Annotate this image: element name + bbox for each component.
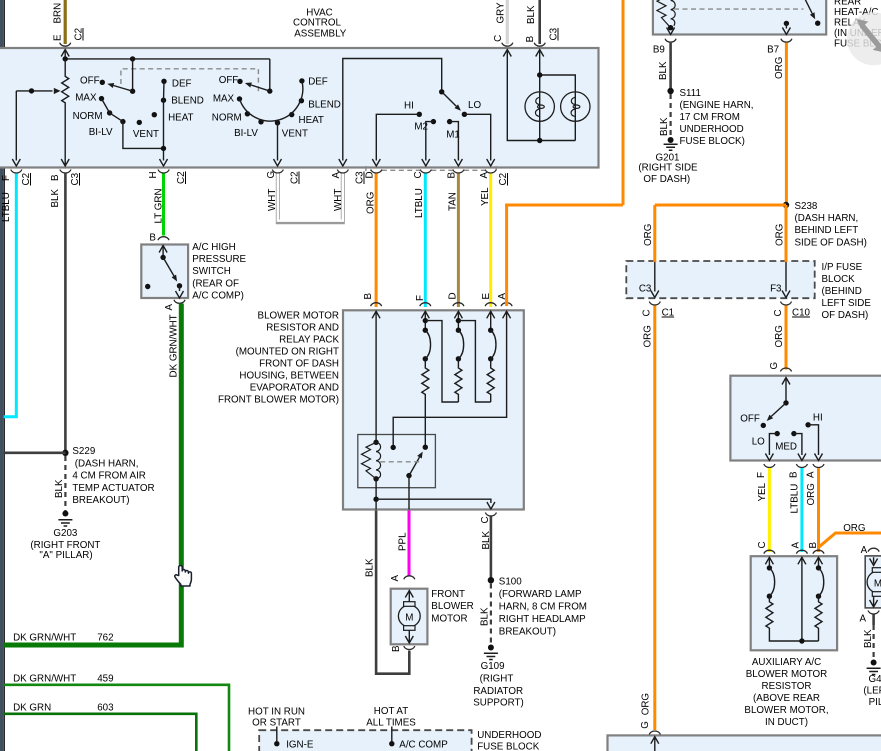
- node F input junction: [423, 318, 459, 402]
- left window edge bar: [0, 0, 4, 751]
- svg-text:ORG: ORG: [640, 693, 651, 715]
- svg-text:OFF: OFF: [80, 76, 100, 87]
- svg-text:LTBLU: LTBLU: [790, 484, 801, 514]
- svg-text:ASSEMBLY: ASSEMBLY: [294, 29, 347, 40]
- svg-text:D: D: [448, 292, 459, 299]
- svg-text:RELAY PACK: RELAY PACK: [279, 335, 339, 346]
- svg-text:BLK: BLK: [50, 189, 61, 208]
- wire ORG C1 down to bottom module: [643, 306, 655, 731]
- rear heat-A/C relay box (cut at top): [653, 0, 826, 35]
- svg-text:C: C: [493, 35, 504, 42]
- svg-text:G109: G109: [481, 661, 505, 672]
- wire BI-LV/BLEND to pin H: [123, 100, 164, 160]
- node pin-E bus junctions: [62, 56, 67, 61]
- svg-text:603: 603: [97, 703, 114, 714]
- svg-text:VENT: VENT: [133, 129, 159, 140]
- svg-text:BRN: BRN: [53, 3, 64, 24]
- wire LTBLU from pin F: [4, 174, 17, 417]
- relay switch: [380, 445, 428, 479]
- A/C high pressure switch box: [141, 245, 188, 299]
- resistor (blend pot): [62, 59, 69, 166]
- svg-text:PPL: PPL: [398, 532, 409, 551]
- svg-text:S111: S111: [680, 88, 701, 99]
- svg-text:C3: C3: [70, 172, 81, 185]
- pin F connector (resistor box): [415, 295, 431, 330]
- svg-text:BLK: BLK: [658, 61, 669, 80]
- wire GRY to pin C: [493, 0, 513, 46]
- wire BLK dashed S100 to G109: [480, 584, 491, 646]
- wire VENT to pin G: [277, 123, 279, 161]
- pin B7 connector: [767, 39, 792, 56]
- svg-text:RESISTOR AND: RESISTOR AND: [266, 323, 339, 334]
- svg-text:C2: C2: [21, 173, 32, 186]
- pin E connector (resistor box): [481, 293, 496, 331]
- svg-text:F: F: [756, 472, 767, 478]
- wire ORG top right vertical: [622, 0, 625, 205]
- svg-text:HOT AT: HOT AT: [374, 706, 408, 717]
- svg-text:HARN, 8 CM FROM: HARN, 8 CM FROM: [499, 602, 587, 613]
- ground G401 (cut): [863, 660, 881, 708]
- svg-text:PIL: PIL: [869, 697, 881, 708]
- pin B connector (aux): [808, 542, 824, 568]
- svg-text:459: 459: [97, 674, 113, 685]
- wire MED to pin B: [794, 434, 806, 461]
- svg-text:D: D: [365, 171, 376, 178]
- blower relay coil: [362, 440, 381, 482]
- mode switch 2 wiper: [245, 59, 273, 94]
- pin A (wht) connector: [331, 170, 366, 212]
- svg-text:VENT: VENT: [282, 128, 308, 139]
- wire BLK pin C to S100: [490, 517, 493, 579]
- svg-text:"A" PILLAR): "A" PILLAR): [39, 550, 92, 561]
- svg-text:RIGHT HEADLAMP: RIGHT HEADLAMP: [499, 614, 586, 625]
- pin B (tan) connector: [447, 170, 464, 212]
- svg-text:B: B: [391, 645, 402, 652]
- pin A exit arrow: [339, 159, 347, 166]
- blower relay inner box: [358, 435, 436, 488]
- pin G exit arrow: [274, 159, 282, 166]
- svg-text:IN DUCT): IN DUCT): [765, 717, 808, 728]
- HVAC control assembly box: [0, 48, 599, 168]
- wire M1 to pin B: [450, 122, 459, 161]
- lamp L1: [525, 92, 554, 121]
- ground G203: [30, 511, 100, 562]
- label UNDERHOOD FUSE BLOCK: [477, 730, 541, 751]
- pin C10 connector: [773, 302, 811, 319]
- svg-text:(REAR OF: (REAR OF: [192, 278, 239, 289]
- svg-text:UNDERHOOD: UNDERHOOD: [477, 730, 541, 741]
- svg-text:762: 762: [97, 633, 113, 644]
- svg-text:TEMP ACTUATOR: TEMP ACTUATOR: [72, 483, 154, 494]
- svg-text:S238: S238: [795, 201, 818, 212]
- svg-text:E: E: [53, 34, 64, 41]
- svg-text:BLOWER: BLOWER: [431, 601, 473, 612]
- svg-text:FUSE BLOCK): FUSE BLOCK): [680, 136, 745, 147]
- mouse cursor: [175, 565, 192, 586]
- pin C1 connector: [642, 302, 675, 319]
- rear switch wiper: [767, 378, 790, 422]
- rear motor internals: [867, 557, 881, 607]
- svg-text:RESISTOR: RESISTOR: [762, 681, 812, 692]
- svg-text:HEAT: HEAT: [168, 113, 193, 124]
- svg-text:A: A: [331, 172, 342, 179]
- node D input junction: [456, 318, 491, 402]
- svg-text:BLK: BLK: [659, 117, 670, 136]
- svg-text:OF DASH): OF DASH): [822, 310, 869, 321]
- wire YEL to aux resistor pin C: [768, 468, 771, 552]
- wire BLK B9 to S111: [658, 43, 671, 91]
- thermal limiter F: [423, 328, 431, 362]
- svg-text:PRESSURE: PRESSURE: [192, 254, 246, 265]
- pin G connector (bottom module): [640, 693, 660, 751]
- wire BLK dashed rear motor to ground: [863, 615, 874, 661]
- svg-text:(FORWARD LAMP: (FORWARD LAMP: [499, 589, 582, 600]
- node aux bottom rail junction: [799, 638, 804, 643]
- svg-text:A: A: [479, 172, 490, 179]
- blower speed switch labels: [404, 100, 481, 141]
- svg-text:MAX: MAX: [213, 94, 235, 105]
- wire WHT U between pin G and pin A: [278, 174, 343, 223]
- rear blower switch box (cut at right): [730, 376, 881, 461]
- svg-text:BLK: BLK: [526, 5, 537, 24]
- page border line: [3, 0, 5, 751]
- svg-text:FRONT BLOWER MOTOR): FRONT BLOWER MOTOR): [218, 395, 339, 406]
- pin B connector of pressure switch: [149, 232, 169, 243]
- pin B connector: [50, 170, 81, 208]
- svg-text:BLOWER MOTOR: BLOWER MOTOR: [746, 669, 827, 680]
- svg-text:IGN-E: IGN-E: [286, 739, 314, 750]
- blower speed switch feed from pin A: [343, 59, 442, 161]
- svg-text:C3: C3: [549, 27, 560, 40]
- fuse A/C COMP: [389, 727, 448, 751]
- svg-text:C2: C2: [290, 171, 301, 184]
- wire LTBLU pin C to resistor pin F: [424, 174, 427, 308]
- pin E entry arrow: [61, 50, 69, 57]
- svg-text:BLOWER MOTOR,: BLOWER MOTOR,: [744, 705, 828, 716]
- svg-text:C3: C3: [639, 284, 652, 295]
- front blower motor box: [391, 589, 428, 645]
- svg-text:B: B: [808, 542, 819, 549]
- pin B connector (resistor box): [363, 293, 382, 443]
- pin A connector (resistor box): [393, 293, 512, 446]
- fuse IGN-E: [274, 727, 314, 751]
- svg-text:(MOUNTED ON RIGHT: (MOUNTED ON RIGHT: [236, 347, 339, 358]
- pin B exit arrow: [61, 159, 69, 166]
- resistor (E leg): [487, 359, 494, 402]
- svg-text:HI: HI: [404, 100, 414, 111]
- wire LT GRN pin H to pressure switch: [162, 174, 165, 236]
- svg-text:YEL: YEL: [757, 482, 768, 501]
- blower speed switch wiper: [439, 89, 461, 111]
- svg-text:A: A: [164, 304, 175, 311]
- ground G201: [638, 137, 698, 185]
- wire DK GRN/WHT 459: [4, 674, 229, 751]
- pin C connector: [413, 170, 431, 219]
- svg-text:C: C: [413, 171, 424, 178]
- pin A connector (motor): [390, 575, 415, 582]
- svg-text:OFF: OFF: [740, 414, 760, 425]
- svg-text:H: H: [148, 171, 159, 178]
- svg-text:BLK: BLK: [863, 629, 874, 648]
- pin A connector (aux): [791, 542, 808, 642]
- wire ORG C10 down to rear switch pin G: [774, 306, 786, 370]
- lamp circuit entry arrows: [503, 50, 543, 57]
- svg-text:FRONT: FRONT: [431, 589, 465, 600]
- svg-text:A: A: [791, 542, 802, 549]
- svg-text:BI-LV: BI-LV: [89, 127, 113, 138]
- svg-text:ORG: ORG: [775, 224, 786, 246]
- blower speed switch contacts: [417, 112, 468, 125]
- pin B connector (motor): [391, 645, 415, 652]
- wire BLK to pin B (top): [525, 0, 559, 46]
- svg-text:C2: C2: [176, 171, 187, 184]
- svg-text:G: G: [640, 721, 651, 729]
- pin F exit arrow: [12, 159, 20, 166]
- wire TAN pin B to resistor pin D: [457, 174, 460, 308]
- fuse F3 path through I/P block: [770, 262, 790, 298]
- svg-text:HI: HI: [813, 413, 823, 424]
- svg-text:HOUSING, BETWEEN: HOUSING, BETWEEN: [239, 371, 339, 382]
- wire ORG B7 to S238: [774, 43, 786, 205]
- relay second coil terminal: [391, 445, 396, 450]
- mode switch 1 wiper: [107, 59, 135, 94]
- svg-text:ORG: ORG: [774, 325, 785, 347]
- label HOT IN RUN OR START: [248, 706, 305, 728]
- pin F connector: [1, 170, 32, 223]
- wire BLK from pin B to S229: [64, 174, 67, 453]
- rear relay switch: [782, 0, 820, 35]
- svg-text:MAX: MAX: [75, 93, 97, 104]
- thermal limiter E: [488, 328, 496, 362]
- svg-text:C: C: [757, 541, 768, 548]
- svg-text:E: E: [481, 293, 492, 300]
- svg-text:SIDE OF DASH): SIDE OF DASH): [795, 237, 867, 248]
- svg-text:CONTROL: CONTROL: [293, 18, 341, 29]
- HVAC title: [293, 7, 347, 39]
- svg-text:RADIATOR: RADIATOR: [473, 686, 523, 697]
- svg-text:FUSE BLOCK: FUSE BLOCK: [477, 741, 540, 751]
- wire LO to pin F: [765, 434, 777, 461]
- svg-text:C: C: [480, 516, 491, 523]
- svg-text:B: B: [447, 172, 458, 179]
- mode switch 2 contacts: [237, 78, 305, 125]
- svg-text:A/C COMP: A/C COMP: [399, 739, 448, 750]
- aux resistor label text: [744, 657, 828, 728]
- svg-text:C1: C1: [662, 308, 675, 319]
- pin A connector top (rear motor): [861, 545, 879, 556]
- svg-text:I/P FUSE: I/P FUSE: [822, 262, 863, 273]
- svg-text:B: B: [789, 471, 800, 478]
- svg-text:BLEND: BLEND: [171, 96, 204, 107]
- wire ORG S238 down to F3: [775, 205, 787, 262]
- mode switch 2 labels: [212, 75, 341, 139]
- svg-text:ORG: ORG: [774, 57, 785, 79]
- svg-text:B: B: [363, 293, 374, 300]
- svg-text:LO: LO: [468, 100, 481, 111]
- pin C connector (aux): [757, 541, 775, 567]
- svg-text:SWITCH: SWITCH: [192, 266, 231, 277]
- resistor (F leg): [422, 359, 429, 447]
- wire HI to pin D: [376, 114, 419, 160]
- svg-text:NORM: NORM: [212, 112, 242, 123]
- svg-text:M: M: [874, 579, 881, 590]
- rear relay coil: [657, 0, 675, 34]
- svg-text:S100: S100: [499, 576, 522, 587]
- svg-text:(DASH HARN,: (DASH HARN,: [75, 458, 139, 469]
- svg-text:EVAPORATOR AND: EVAPORATOR AND: [250, 383, 339, 394]
- pin A connector (rear switch bottom): [806, 464, 825, 506]
- thermal limiter aux C: [767, 565, 775, 599]
- label HOT AT ALL TIMES: [366, 706, 416, 729]
- pin D connector: [365, 170, 382, 215]
- svg-text:17 CM FROM: 17 CM FROM: [680, 112, 740, 123]
- lamp circuit wires: [507, 50, 575, 141]
- svg-text:B9: B9: [653, 45, 665, 56]
- svg-text:HEAT: HEAT: [299, 115, 324, 126]
- svg-text:TAN: TAN: [448, 192, 459, 211]
- pin H exit arrow: [160, 159, 168, 166]
- thermal limiter D: [456, 328, 464, 362]
- svg-text:DK GRN: DK GRN: [13, 703, 51, 714]
- svg-text:BLOWER MOTOR: BLOWER MOTOR: [258, 311, 339, 322]
- svg-text:BLEND: BLEND: [308, 100, 341, 111]
- svg-text:F: F: [1, 175, 12, 181]
- svg-text:BREAKOUT): BREAKOUT): [72, 495, 129, 506]
- svg-text:BLK: BLK: [480, 607, 491, 626]
- svg-text:B: B: [50, 174, 61, 181]
- pot wiper arrow from pin F: [16, 91, 52, 161]
- svg-text:B7: B7: [767, 45, 779, 56]
- svg-text:(RIGHT: (RIGHT: [480, 674, 514, 685]
- svg-text:NORM: NORM: [73, 111, 103, 122]
- svg-text:DK GRN/WHT: DK GRN/WHT: [13, 633, 76, 644]
- I/P fuse block dashed box: [626, 261, 814, 298]
- svg-text:BREAKOUT): BREAKOUT): [499, 627, 556, 638]
- svg-text:ORG: ORG: [643, 224, 654, 246]
- svg-text:ORG: ORG: [643, 325, 654, 347]
- resistor aux B: [815, 596, 822, 641]
- svg-text:BI-LV: BI-LV: [234, 128, 258, 139]
- wire ORG S238 run to C3: [643, 205, 786, 262]
- svg-text:FRONT OF DASH: FRONT OF DASH: [259, 359, 339, 370]
- splice S238: [783, 201, 867, 249]
- svg-text:C2: C2: [74, 28, 85, 41]
- svg-text:(RIGHT SIDE: (RIGHT SIDE: [638, 162, 698, 173]
- svg-text:(ABOVE REAR: (ABOVE REAR: [753, 693, 820, 704]
- svg-text:A: A: [859, 613, 866, 624]
- svg-text:DEF: DEF: [308, 77, 328, 88]
- pin A connector of pressure switch: [164, 300, 185, 311]
- underhood fuse block dashed box: [259, 730, 471, 751]
- pin A connector bottom (rear motor): [859, 611, 879, 625]
- ground G109: [473, 645, 523, 709]
- svg-text:C: C: [773, 309, 784, 316]
- resistor (D leg): [455, 359, 462, 402]
- svg-text:C2: C2: [498, 173, 509, 186]
- svg-text:BLOCK: BLOCK: [822, 274, 856, 285]
- svg-text:(LEF: (LEF: [863, 685, 881, 696]
- svg-text:(ENGINE HARN,: (ENGINE HARN,: [680, 100, 754, 111]
- svg-text:UNDERHOOD: UNDERHOOD: [680, 124, 744, 135]
- svg-text:G: G: [266, 171, 277, 179]
- pin H connector: [148, 170, 187, 224]
- wire HI to pin A: [808, 425, 822, 461]
- pin B connector (rear switch bottom): [789, 464, 808, 514]
- svg-text:MOTOR: MOTOR: [431, 613, 467, 624]
- svg-text:BLK: BLK: [54, 479, 65, 498]
- splice S111: [667, 88, 753, 147]
- blower motor resistor and relay pack box: [343, 310, 524, 509]
- svg-text:MED: MED: [775, 442, 797, 453]
- svg-text:G203: G203: [53, 528, 78, 539]
- pin F connector (rear switch bottom): [756, 464, 775, 502]
- svg-text:ORG: ORG: [806, 483, 817, 505]
- svg-text:G4: G4: [868, 674, 881, 685]
- lamp L2: [561, 92, 590, 121]
- pin G connector (rear switch): [769, 362, 792, 372]
- wire BLK dashed S229 to G203: [54, 456, 65, 511]
- wire ORG pin D to resistor pin B: [375, 174, 378, 308]
- wire YEL pin A to resistor pin E: [489, 174, 492, 308]
- svg-text:GRY: GRY: [495, 2, 506, 24]
- pin B9 connector: [653, 39, 676, 56]
- svg-text:(BEHIND: (BEHIND: [822, 286, 862, 297]
- svg-text:BEHIND LEFT: BEHIND LEFT: [795, 225, 859, 236]
- svg-text:ORG: ORG: [843, 523, 865, 534]
- rear A/C blower motor box (cut at right): [865, 556, 881, 608]
- mode switch 1 labels: [73, 76, 204, 141]
- wire M2 to pin C: [426, 122, 434, 161]
- front blower motor label: [431, 589, 473, 624]
- svg-text:C: C: [642, 309, 653, 316]
- svg-text:A/C COMP): A/C COMP): [192, 291, 244, 302]
- svg-text:M: M: [405, 613, 413, 624]
- wire BLK dashed S111 to G201: [659, 94, 671, 137]
- I/P fuse block label text: [822, 262, 872, 321]
- wire BRN to pin E: [53, 0, 85, 46]
- rear relay actuation dashed: [674, 8, 803, 10]
- svg-text:F3: F3: [770, 284, 782, 295]
- pin A (yel) connector: [479, 170, 509, 207]
- wire DK GRN/WHT 762 (highlighted): [4, 304, 182, 646]
- zoom button overlay: [847, 12, 881, 65]
- svg-text:(DASH HARN,: (DASH HARN,: [795, 213, 859, 224]
- bottom-right module box (cut): [608, 735, 881, 751]
- wire ORG to aux resistor pin B with branch right: [819, 468, 881, 552]
- svg-text:C10: C10: [792, 308, 811, 319]
- svg-text:B: B: [149, 232, 156, 243]
- svg-text:B: B: [525, 35, 536, 42]
- mechanical link dashed bracket: [121, 69, 259, 92]
- svg-text:F: F: [415, 295, 426, 301]
- splice S100: [488, 576, 587, 637]
- mode switch 1 contacts: [99, 79, 167, 126]
- svg-text:LTBLU: LTBLU: [1, 192, 12, 222]
- wire PPL relay common to front blower motor: [398, 511, 410, 577]
- connector C2 dashed bracket: [366, 166, 496, 170]
- svg-text:OFF: OFF: [219, 75, 239, 86]
- pressure switch internals: [145, 246, 184, 299]
- svg-text:A: A: [806, 471, 817, 478]
- wire LO to pin A (yel): [464, 114, 490, 160]
- svg-text:DK GRN/WHT: DK GRN/WHT: [169, 314, 180, 377]
- rear switch labels: [740, 413, 822, 453]
- resistor aux C: [766, 596, 819, 641]
- svg-text:SUPPORT): SUPPORT): [473, 698, 523, 709]
- svg-text:G: G: [769, 362, 780, 370]
- label DK GRN/WHT 762: [13, 633, 113, 644]
- svg-text:DK GRN/WHT: DK GRN/WHT: [13, 674, 76, 685]
